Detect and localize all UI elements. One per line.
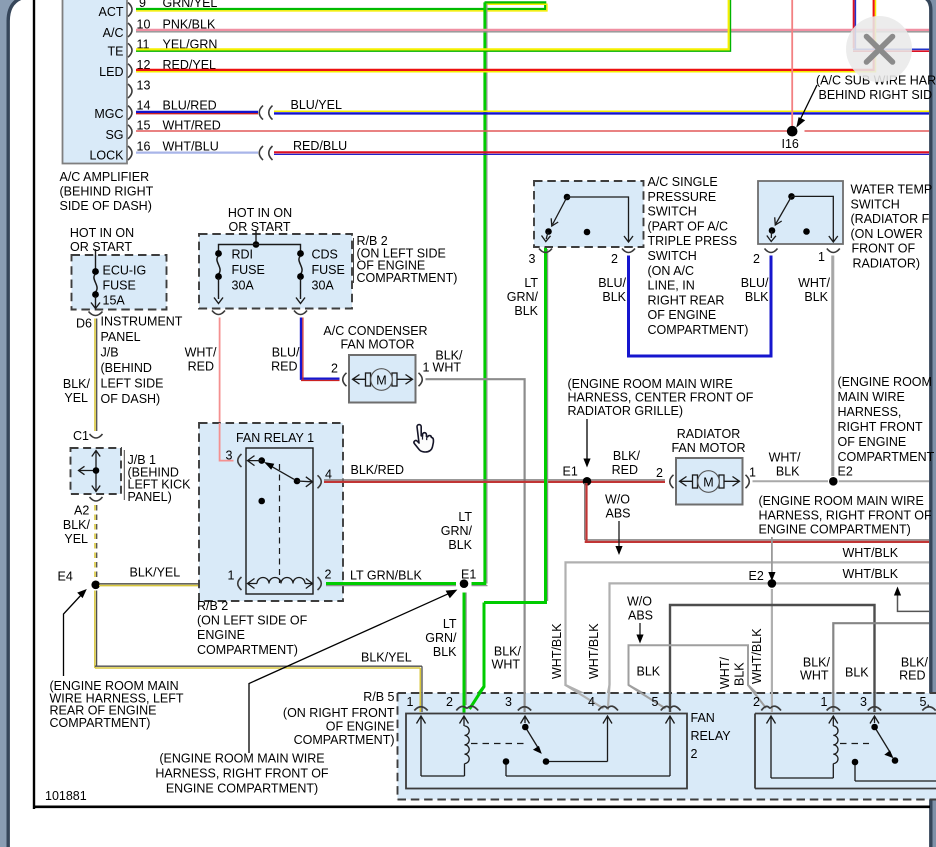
svg-text:BLK/: BLK/ [63, 518, 91, 532]
wire BLK gray diagonal into pin5L [629, 685, 665, 706]
svg-text:GRN/: GRN/ [507, 290, 539, 304]
fuse CDS 30A [296, 248, 345, 304]
svg-text:BLK/: BLK/ [494, 645, 522, 659]
svg-text:SG: SG [105, 128, 123, 142]
svg-text:BLU/: BLU/ [598, 276, 626, 290]
svg-text:OF ENGINE: OF ENGINE [326, 720, 395, 734]
wire BLK/YEL E4 to fan relay1 pin1 [99, 584, 235, 586]
svg-text:BLK: BLK [733, 662, 747, 686]
label WHT/RED [185, 346, 217, 374]
wire BLK/WHT condenser motor to R/B5 pin3 [426, 379, 525, 707]
label BLU/BLK at pin2 [598, 276, 626, 304]
svg-text:BLU/YEL: BLU/YEL [291, 98, 342, 112]
svg-text:PANEL): PANEL) [128, 490, 172, 504]
wire WHT/BLK E2 lower to fan relay2 pin2 [771, 589, 772, 706]
svg-text:(ON LEFT SIDE OF: (ON LEFT SIDE OF [197, 614, 308, 628]
A/C amplifier U1 connector box [63, 0, 128, 164]
pin 13 arc [128, 84, 132, 98]
pin 11 arc [128, 43, 132, 57]
svg-text:WHT/BLK: WHT/BLK [843, 567, 899, 581]
harness note right front upper [838, 375, 935, 479]
svg-text:WHT: WHT [800, 669, 829, 683]
pin 12 arc [128, 64, 132, 78]
svg-text:FUSE: FUSE [312, 263, 345, 277]
HOT IN ON OR START label (ECU-IG) [70, 226, 134, 254]
svg-text:(ENGINE ROOM MAIN WIRE: (ENGINE ROOM MAIN WIRE [568, 377, 733, 391]
svg-text:HARNESS, RIGHT FRONT OF: HARNESS, RIGHT FRONT OF [759, 508, 933, 522]
label BLU/RED [271, 346, 300, 374]
arrow from note to I16 [796, 85, 817, 128]
svg-text:RED: RED [899, 669, 925, 683]
svg-text:RDI: RDI [232, 248, 254, 262]
close button [846, 16, 912, 82]
wire BLU/BLK U-link pressure pin2 to water temp pin2 [629, 256, 772, 357]
svg-text:INSTRUMENT: INSTRUMENT [101, 315, 183, 329]
svg-text:HOT IN ON: HOT IN ON [228, 206, 292, 220]
svg-text:BLK: BLK [845, 666, 869, 680]
label BLK/WHT condenser [433, 349, 463, 375]
svg-text:WHT/BLK: WHT/BLK [550, 623, 564, 679]
svg-text:(ON A/C: (ON A/C [648, 264, 695, 278]
svg-text:COMPARTMENT): COMPARTMENT) [197, 643, 298, 657]
caption instrument panel J/B [101, 315, 183, 407]
water temp switch internal contacts [767, 193, 838, 242]
svg-text:RADIATOR: RADIATOR [677, 427, 740, 441]
motor symbol M1 [353, 369, 413, 391]
svg-text:(ENGINE ROOM MAIN WIRE: (ENGINE ROOM MAIN WIRE [759, 494, 924, 508]
svg-text:BLK/: BLK/ [613, 449, 641, 463]
svg-text:3: 3 [226, 449, 233, 463]
pressure switch caption [648, 175, 749, 337]
svg-text:D6: D6 [76, 317, 92, 331]
wire WHT/BLK water temp pin1 down to E2 [832, 256, 833, 477]
connector arc below RDI [212, 311, 225, 315]
radiator fan motor caption [671, 427, 745, 455]
R/B 5 caption [283, 690, 395, 747]
svg-text:HARNESS,: HARNESS, [838, 405, 902, 419]
label WHT/BLK at water temp pin1 [798, 276, 830, 304]
mouse cursor [414, 425, 434, 452]
svg-text:WHT/: WHT/ [185, 346, 217, 360]
wire WHT/RED RDI to fan relay1 pin3 [220, 318, 234, 461]
wire PNK/BLK pin10 [136, 30, 929, 32]
svg-text:COMPARTMENT): COMPARTMENT) [50, 716, 151, 730]
svg-text:(BEHIND: (BEHIND [101, 361, 152, 375]
pin 14 arc [128, 106, 132, 120]
svg-text:LT GRN/BLK: LT GRN/BLK [350, 569, 422, 583]
svg-text:RED/BLU: RED/BLU [293, 139, 347, 153]
small arrow up to line2 near border [894, 587, 929, 612]
svg-text:A/C AMPLIFIER: A/C AMPLIFIER [60, 170, 150, 184]
svg-text:(ON LOWER: (ON LOWER [851, 227, 923, 241]
svg-text:BLK: BLK [433, 645, 457, 659]
svg-text:SWITCH: SWITCH [648, 205, 697, 219]
svg-text:C1: C1 [73, 429, 89, 443]
wire BLK/WHT from border to relay2R pin1 [833, 623, 929, 707]
svg-text:LED: LED [99, 65, 123, 79]
wire RED/BLU row16 to right border [274, 152, 929, 154]
wire WHT/BLK line2 to fan relay2 pin4 [607, 583, 930, 700]
arrow W/O ABS lower [636, 623, 643, 644]
svg-text:M: M [703, 476, 713, 490]
svg-text:HARNESS, CENTER FRONT OF: HARNESS, CENTER FRONT OF [568, 391, 754, 405]
svg-text:LT: LT [524, 276, 538, 290]
svg-text:BEHIND RIGHT SID: BEHIND RIGHT SID [819, 88, 933, 102]
svg-text:(RADIATOR F: (RADIATOR F [851, 212, 930, 226]
svg-text:FUSE: FUSE [103, 279, 136, 293]
svg-text:GRN/: GRN/ [425, 631, 457, 645]
svg-text:BLK: BLK [514, 304, 538, 318]
svg-text:30A: 30A [312, 279, 335, 293]
svg-text:COMPARTMENT): COMPARTMENT) [648, 323, 749, 337]
connector arc D6 [89, 312, 103, 316]
wire WHT/RED overdraw inside relay1 box [220, 423, 234, 461]
svg-text:WHT/: WHT/ [718, 657, 732, 689]
pin 9 arc [128, 3, 132, 17]
harness note radiator grille [568, 377, 754, 418]
pin 10 arc [128, 23, 132, 37]
label WHT/BLK radiator [769, 451, 801, 479]
svg-text:(ON RIGHT FRONT: (ON RIGHT FRONT [283, 706, 395, 720]
svg-text:LEFT SIDE: LEFT SIDE [101, 377, 164, 391]
wire LT GRN/BLK E1 down to R/B5 pin2 [464, 593, 466, 709]
arrow note to E1 [249, 590, 457, 753]
svg-text:COMPARTMENT): COMPARTMENT) [357, 271, 458, 285]
svg-text:W/O: W/O [627, 595, 652, 609]
label BLK/WHT right [800, 656, 830, 683]
svg-text:BLK: BLK [804, 290, 828, 304]
svg-text:5: 5 [652, 695, 659, 709]
svg-text:WHT: WHT [492, 658, 521, 672]
svg-text:BLK: BLK [637, 665, 661, 679]
svg-text:GRN/: GRN/ [441, 524, 473, 538]
connector arc below CDS [294, 311, 307, 315]
svg-text:ABS: ABS [605, 507, 630, 521]
wire BLK/YEL D6 to C1 [95, 319, 97, 432]
wire A/C sub-harness salmon vertical to I16 [791, 0, 793, 128]
arrow W/O ABS upper [615, 521, 622, 555]
wire BLU/RED pin14 segment [136, 112, 258, 114]
label W/O ABS lower [627, 595, 653, 623]
harness note A/C sub wire [816, 74, 936, 103]
harness note right front (bottom centre) [155, 752, 329, 796]
svg-text:COMPARTMENT): COMPARTMENT) [294, 733, 395, 747]
ECU-IG fuse box (dashed) [72, 255, 167, 310]
relay2L internals [417, 716, 675, 776]
svg-text:FAN RELAY 1: FAN RELAY 1 [236, 431, 314, 445]
svg-text:E2: E2 [838, 465, 853, 479]
svg-text:2: 2 [656, 466, 663, 480]
node E2 radiator [829, 477, 838, 486]
wire BLK/RED E1 down to right border [585, 483, 929, 542]
svg-text:RIGHT REAR: RIGHT REAR [648, 293, 725, 307]
inline connector row14 [259, 106, 272, 120]
svg-text:ENGINE COMPARTMENT): ENGINE COMPARTMENT) [759, 523, 911, 537]
svg-text:BLK/: BLK/ [803, 656, 831, 670]
svg-text:A/C SINGLE: A/C SINGLE [648, 175, 718, 189]
fan relay 1 coil [248, 578, 313, 589]
svg-text:(ENGINE ROOM MAIN WIRE: (ENGINE ROOM MAIN WIRE [159, 752, 324, 766]
svg-text:RED: RED [612, 463, 638, 477]
svg-text:2: 2 [611, 252, 618, 266]
svg-text:CDS: CDS [312, 248, 338, 262]
svg-text:BLU/: BLU/ [741, 276, 769, 290]
A/C single pressure switch box (dashed) [534, 181, 644, 247]
A/C condenser fan motor M1 caption [323, 324, 427, 352]
svg-text:RELAY: RELAY [691, 729, 732, 743]
arrow note to E4 [64, 589, 87, 676]
svg-text:WHT/: WHT/ [769, 451, 801, 465]
relay2R internals [767, 716, 936, 781]
svg-text:RED: RED [271, 360, 297, 374]
svg-text:E2: E2 [749, 569, 764, 583]
svg-text:BLK/: BLK/ [901, 656, 929, 670]
label BLK/YEL upper [63, 377, 91, 405]
svg-text:R/B 2: R/B 2 [197, 599, 228, 613]
svg-text:YEL: YEL [64, 532, 88, 546]
node E4 [91, 581, 100, 590]
svg-text:W/O: W/O [605, 493, 630, 507]
svg-text:M: M [376, 374, 386, 388]
svg-text:A/C CONDENSER: A/C CONDENSER [323, 324, 427, 338]
svg-text:(ENGINE ROOM: (ENGINE ROOM [838, 375, 932, 389]
svg-text:PANEL: PANEL [101, 330, 141, 344]
svg-text:A/C: A/C [103, 26, 124, 40]
wire stubs over R/B5 fill [420, 670, 874, 713]
radiator fan motor box [676, 458, 743, 505]
svg-text:ABS: ABS [628, 609, 653, 623]
J/B 1 internal arrows [79, 451, 101, 492]
fan relay 1 internal switch [248, 456, 313, 583]
svg-text:R/B 5: R/B 5 [363, 690, 394, 704]
svg-text:BLK/YEL: BLK/YEL [130, 566, 181, 580]
svg-text:ENGINE COMPARTMENT): ENGINE COMPARTMENT) [166, 782, 318, 796]
wire RED/BLU vertical top right [853, 0, 929, 51]
svg-text:FAN: FAN [691, 711, 715, 725]
svg-text:BLU/: BLU/ [272, 346, 300, 360]
fuse RDI 30A [214, 248, 265, 304]
label BLK/RED at radiator motor [612, 449, 641, 477]
pin 15 arc [128, 125, 132, 139]
svg-text:YEL: YEL [64, 391, 88, 405]
svg-text:1: 1 [749, 466, 756, 480]
wire harness pointer down to E2 lower [768, 537, 775, 581]
A/C amplifier caption [60, 170, 154, 213]
svg-text:RADIATOR GRILLE): RADIATOR GRILLE) [568, 404, 684, 418]
svg-text:2: 2 [753, 252, 760, 266]
fan relay 1 box (dashed) [199, 423, 343, 601]
svg-text:1: 1 [228, 569, 235, 583]
pressure switch internal contacts [542, 194, 634, 242]
svg-text:1: 1 [818, 250, 825, 264]
wire YEL/GRN pin11 with turn up at x=729 [136, 0, 731, 51]
svg-text:E1: E1 [461, 568, 476, 582]
label BLU/BLK at water temp pin2 [741, 276, 769, 304]
svg-text:A2: A2 [74, 504, 89, 518]
svg-text:2: 2 [325, 568, 332, 582]
harness note right front lower [759, 494, 933, 537]
relay2 right inner box [755, 714, 936, 789]
svg-text:J/B: J/B [101, 346, 119, 360]
inline connector row16 [259, 146, 272, 160]
svg-text:3: 3 [529, 252, 536, 266]
wire LT GRN/BLK long vertical (node to E1) [485, 2, 487, 583]
diagram page bottom border [33, 805, 930, 808]
svg-text:RED: RED [188, 360, 214, 374]
arrow grille note to E1 [583, 419, 590, 468]
svg-text:30A: 30A [232, 279, 255, 293]
svg-text:BLK/: BLK/ [63, 377, 91, 391]
caption R/B 2 lower [197, 599, 308, 657]
svg-text:3: 3 [505, 695, 512, 709]
svg-text:FRONT OF: FRONT OF [852, 242, 916, 256]
svg-text:15A: 15A [103, 294, 126, 308]
svg-text:TRIPLE PRESS: TRIPLE PRESS [648, 234, 738, 248]
R/B 2 fuse box (dashed) [199, 234, 352, 309]
svg-text:3: 3 [860, 695, 867, 709]
svg-text:WHT/BLK: WHT/BLK [843, 546, 899, 560]
svg-text:BLK: BLK [448, 538, 472, 552]
svg-text:1: 1 [407, 695, 414, 709]
motor symbol M2 [680, 471, 740, 493]
A/C condenser fan motor box [349, 355, 416, 403]
fuse F1 ECU-IG 15A [91, 249, 146, 309]
svg-text:E1: E1 [563, 465, 578, 479]
wire GRN/YEL pin9 with loop to LT GRN/BLK vertical [136, 2, 547, 11]
caption R/B 2 with bracket [354, 234, 458, 285]
svg-text:HARNESS, RIGHT FRONT OF: HARNESS, RIGHT FRONT OF [155, 767, 329, 781]
wire BLU/YEL row14 to right border [274, 111, 929, 113]
R/B 5 box (dashed, cut at right) [398, 693, 936, 800]
node I16 [787, 126, 798, 137]
svg-text:2: 2 [753, 695, 760, 709]
wire WHT/RED pin15 [136, 130, 929, 132]
water temp switch caption [851, 183, 933, 271]
fan relay 1 inner box [246, 448, 313, 594]
svg-text:BLU/RED: BLU/RED [163, 98, 217, 112]
fan relay 2 caption [691, 711, 732, 761]
HOT IN ON OR START label (R/B2) [228, 206, 292, 234]
svg-text:SIDE OF DASH): SIDE OF DASH) [60, 199, 152, 213]
svg-text:WHT: WHT [433, 361, 462, 375]
label LT GRN/BLK at pin3 [507, 276, 539, 318]
label BLK/WHT condenser lower [492, 645, 522, 672]
svg-text:BLK: BLK [776, 465, 800, 479]
svg-text:COMPARTMENT: COMPARTMENT [838, 450, 935, 464]
svg-text:ECU-IG: ECU-IG [103, 264, 147, 278]
svg-text:PRESSURE: PRESSURE [648, 190, 717, 204]
svg-text:101881: 101881 [45, 789, 87, 803]
wire WHT/BLU pin16 segment [136, 152, 258, 154]
wire BLU/RED CDS to condenser motor pin2 [301, 318, 340, 381]
label W/O ABS upper [605, 493, 631, 521]
svg-text:BLK: BLK [602, 290, 626, 304]
wire BLK/RED relay1 pin4 to radiator motor pin2 [324, 480, 665, 482]
svg-text:BLK/RED: BLK/RED [351, 463, 405, 477]
svg-text:OR START: OR START [70, 240, 132, 254]
J/B 1 box (dashed) [71, 448, 122, 494]
caption J/B 1 with bracket [124, 450, 191, 504]
svg-text:FAN MOTOR: FAN MOTOR [340, 338, 414, 352]
svg-text:OF DASH): OF DASH) [101, 392, 161, 406]
wire WHT/BLK radiator pin1 to E2 to border [753, 480, 930, 482]
svg-text:WATER TEMP: WATER TEMP [851, 183, 933, 197]
svg-text:TE: TE [108, 45, 124, 59]
svg-text:MAIN WIRE: MAIN WIRE [838, 390, 905, 404]
relay2 left inner box [406, 714, 687, 789]
svg-text:1: 1 [423, 361, 430, 375]
svg-text:1: 1 [821, 695, 828, 709]
svg-text:OF ENGINE: OF ENGINE [838, 435, 907, 449]
wire BLK/YEL dashed A2 to E4 [95, 505, 97, 578]
svg-text:FUSE: FUSE [232, 263, 265, 277]
svg-text:LINE, IN: LINE, IN [648, 279, 695, 293]
wire WHT/BLK line1 to fan relay2 pin4 [566, 562, 930, 702]
wire BLK gray link to pin5L and pin2R [629, 645, 765, 701]
svg-text:BLK: BLK [745, 290, 769, 304]
diagram page left border [33, 0, 35, 809]
svg-text:SWITCH: SWITCH [648, 249, 697, 263]
wire BLK link relay2L pin5 to relay2R pin3 [670, 605, 875, 706]
svg-text:ENGINE: ENGINE [197, 628, 245, 642]
water temp switch box [758, 181, 843, 244]
wire LT GRN/BLK relay1 pin2 to E1 [326, 584, 488, 586]
svg-text:2: 2 [446, 695, 453, 709]
svg-text:RADIATOR): RADIATOR) [853, 257, 921, 271]
svg-text:14: 14 [137, 98, 151, 112]
wire LT GRN/BLK from pressure switch down-jog to R/B5 pin2 [469, 248, 548, 707]
svg-text:WHT/BLK: WHT/BLK [750, 628, 764, 684]
svg-text:OF ENGINE: OF ENGINE [648, 308, 717, 322]
wire BLK/YEL E4 down and right to R/B5 pin1 [95, 591, 422, 708]
svg-text:WHT/: WHT/ [798, 276, 830, 290]
svg-text:MGC: MGC [94, 107, 123, 121]
svg-text:ACT: ACT [99, 5, 124, 19]
svg-text:LOCK: LOCK [89, 148, 124, 162]
svg-text:4: 4 [588, 695, 595, 709]
harness note left rear [50, 679, 184, 730]
label LT GRN/BLK lower [425, 617, 457, 659]
rotated label WHT/BLK two-line at link [718, 657, 747, 689]
pin 16 arc [128, 146, 132, 160]
svg-text:13: 13 [137, 78, 151, 92]
svg-text:RIGHT FRONT: RIGHT FRONT [838, 420, 924, 434]
svg-text:FAN MOTOR: FAN MOTOR [671, 441, 745, 455]
svg-text:I16: I16 [782, 137, 799, 151]
wire RED/YEL pin12 with turn up at x=874 [136, 0, 876, 72]
top feed rail [219, 231, 301, 252]
label LT GRN/BLK upper (E1 vertical) [441, 510, 473, 552]
svg-text:HOT IN ON: HOT IN ON [70, 226, 134, 240]
svg-text:(PART OF A/C: (PART OF A/C [648, 219, 729, 233]
svg-text:WHT/BLK: WHT/BLK [587, 623, 601, 679]
svg-text:2: 2 [331, 362, 338, 376]
svg-text:LT: LT [458, 510, 472, 524]
svg-text:OR START: OR START [228, 220, 290, 234]
svg-text:BLK/YEL: BLK/YEL [361, 651, 412, 665]
svg-text:E4: E4 [58, 570, 73, 584]
svg-text:LT: LT [443, 617, 457, 631]
svg-text:(BEHIND RIGHT: (BEHIND RIGHT [60, 185, 154, 199]
label BLK/RED right [899, 656, 928, 683]
svg-text:2: 2 [691, 747, 698, 761]
label BLK/YEL lower [63, 518, 91, 546]
svg-text:SWITCH: SWITCH [851, 197, 900, 211]
